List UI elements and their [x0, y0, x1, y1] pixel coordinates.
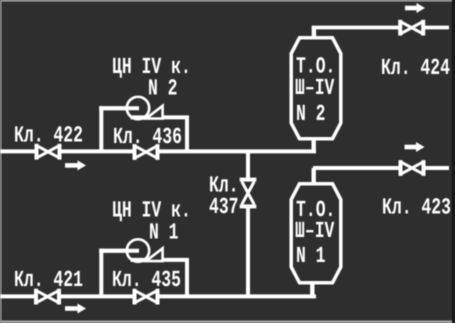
svg-text:Кл. 421: Кл. 421 — [14, 267, 83, 293]
svg-text:437: 437 — [209, 194, 239, 220]
svg-text:Кл. 424: Кл. 424 — [381, 55, 450, 81]
svg-text:N 2: N 2 — [296, 101, 326, 127]
svg-text:N 1: N 1 — [149, 220, 179, 246]
svg-text:N 1: N 1 — [296, 243, 326, 269]
svg-text:Кл. 435: Кл. 435 — [112, 267, 181, 293]
svg-text:Кл. 436: Кл. 436 — [113, 124, 182, 150]
svg-text:N 2: N 2 — [148, 76, 178, 102]
svg-text:Ш–IV: Ш–IV — [295, 218, 335, 244]
svg-text:Кл. 422: Кл. 422 — [14, 123, 83, 149]
svg-text:Ш–IV: Ш–IV — [295, 75, 335, 101]
svg-text:Кл. 423: Кл. 423 — [382, 195, 451, 221]
